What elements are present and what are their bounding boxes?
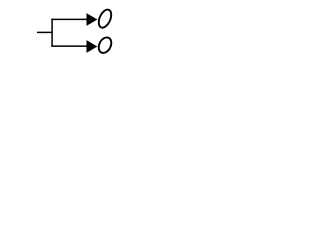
wire: vertical branch (51, 19, 53, 47)
wire: bottom branch (51, 45, 87, 47)
wire: input stub (37, 31, 53, 33)
arrowhead (bottom) (87, 40, 98, 53)
arrowhead (top) (87, 13, 98, 26)
node ellipse (top) (96, 8, 113, 30)
wire: top branch (51, 18, 87, 20)
node ellipse (bottom) (96, 35, 114, 55)
